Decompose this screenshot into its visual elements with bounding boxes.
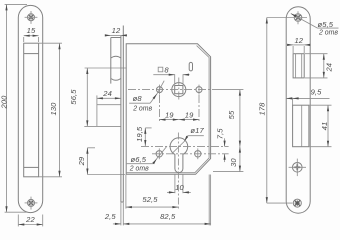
dimension 30 bbox=[213, 147, 243, 172]
dimension 82.5 bbox=[123, 175, 210, 226]
dimension 29 bbox=[87, 148, 125, 175]
square hole width arrows bbox=[153, 74, 189, 84]
phi5.5 label with leader bbox=[291, 14, 339, 37]
dimension 9.5 bbox=[286, 98, 329, 105]
phi6.5 centerline bbox=[152, 153, 229, 155]
faceplate top screw bbox=[294, 11, 302, 24]
dimension 2.5 bbox=[113, 202, 123, 225]
horizontal centerline through spindle bbox=[128, 89, 214, 91]
cylinder centerline bbox=[141, 146, 229, 148]
svg-text:15: 15 bbox=[27, 26, 36, 35]
svg-text:82,5: 82,5 bbox=[160, 212, 176, 221]
latch hole (right view) bbox=[293, 54, 304, 78]
latch housing strip (middle view) bbox=[111, 38, 121, 84]
dimension 19 19 bbox=[160, 95, 200, 121]
dimension 41 bbox=[310, 105, 332, 147]
svg-text:22: 22 bbox=[25, 215, 35, 224]
svg-text:7,5: 7,5 bbox=[216, 128, 225, 140]
svg-text:30: 30 bbox=[229, 158, 238, 167]
phi8 label with leader bbox=[129, 81, 164, 113]
phi17 label with leader bbox=[172, 126, 204, 153]
dimension 24 (middle view) bbox=[97, 95, 121, 126]
faceplate bottom screw bbox=[293, 199, 301, 207]
svg-text:41: 41 bbox=[320, 122, 329, 131]
phi6.5 hole left bbox=[156, 148, 162, 159]
dimension 55 bbox=[214, 90, 244, 147]
strike plate top screw hole bbox=[25, 11, 38, 24]
svg-text:2,5: 2,5 bbox=[104, 212, 117, 221]
phi8 hole left bbox=[157, 85, 163, 95]
svg-text:8: 8 bbox=[164, 65, 169, 74]
phi6.5 hole right bbox=[195, 148, 201, 159]
lock case inner wall lines bbox=[126, 46, 209, 173]
small oval slot bbox=[189, 62, 192, 71]
phi8 hole right bbox=[196, 85, 202, 95]
svg-text:56,5: 56,5 bbox=[69, 89, 78, 105]
dimension 12 (right view) bbox=[288, 45, 310, 53]
strike plate bottom screw hole bbox=[25, 197, 38, 210]
dimension 24 (right view) bbox=[305, 54, 328, 78]
svg-text:24: 24 bbox=[325, 63, 334, 73]
svg-text:24: 24 bbox=[102, 89, 112, 98]
dimension 19.5 bbox=[145, 128, 151, 146]
svg-text:29: 29 bbox=[77, 156, 86, 166]
dimension 7.5 bbox=[224, 138, 226, 162]
dimension 15 bbox=[24, 36, 39, 42]
svg-text:2 отв: 2 отв bbox=[132, 106, 152, 113]
svg-text:9,5: 9,5 bbox=[311, 88, 323, 97]
faceplate side view bbox=[121, 26, 123, 203]
dimension 200 bbox=[5, 4, 27, 212]
svg-text:12: 12 bbox=[294, 36, 303, 45]
svg-text:2 отв: 2 отв bbox=[129, 165, 149, 172]
svg-text:19: 19 bbox=[185, 110, 194, 119]
svg-text:ø6,5: ø6,5 bbox=[131, 155, 147, 164]
svg-text:200: 200 bbox=[0, 95, 8, 110]
dimension 130 bbox=[39, 43, 62, 177]
svg-text:ø5,5: ø5,5 bbox=[318, 20, 334, 29]
dimension 22 bbox=[18, 215, 42, 227]
dimension 12 (middle top) bbox=[105, 34, 126, 36]
lock case outline bbox=[126, 44, 210, 175]
svg-text:2 отв: 2 отв bbox=[318, 30, 338, 37]
svg-text:55: 55 bbox=[227, 110, 236, 119]
svg-text:12: 12 bbox=[112, 26, 121, 35]
dimension 178 bbox=[267, 18, 307, 204]
latch bolt arcs bbox=[111, 56, 121, 80]
phi6.5 label with leader bbox=[127, 146, 167, 172]
svg-text:130: 130 bbox=[49, 102, 58, 116]
latch centerline bbox=[85, 67, 127, 69]
faceplate outline (right view) bbox=[286, 7, 310, 213]
dimension 56.5 bbox=[84, 68, 121, 126]
svg-text:178: 178 bbox=[258, 102, 267, 116]
vertical centerline through spindle bbox=[178, 78, 180, 102]
keyhole cylinder cutout bbox=[170, 138, 188, 173]
svg-text:10: 10 bbox=[175, 183, 184, 192]
svg-text:ø8: ø8 bbox=[133, 94, 143, 103]
square 8 label bbox=[158, 65, 169, 74]
svg-text:52,5: 52,5 bbox=[142, 195, 158, 204]
svg-text:19: 19 bbox=[165, 110, 174, 119]
strike plate slot bbox=[24, 43, 39, 177]
deadbolt hole (right view) bbox=[293, 105, 309, 147]
dimension 10 bbox=[167, 175, 191, 194]
cylinder hole (right view) bbox=[289, 159, 306, 177]
dimension 52.5 bbox=[126, 133, 178, 209]
spindle hub with square hole bbox=[172, 83, 186, 97]
svg-text:ø17: ø17 bbox=[190, 126, 204, 135]
svg-text:19,5: 19,5 bbox=[135, 126, 144, 142]
strike plate outline (left view) bbox=[18, 5, 42, 212]
